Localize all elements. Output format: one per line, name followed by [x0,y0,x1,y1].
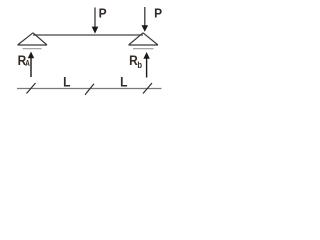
load arrow P1 [92,8,99,34]
svg-text:L: L [120,74,127,90]
dimension line [17,88,162,90]
support A ground line [23,48,42,50]
support B ground line [133,48,154,50]
svg-text:A: A [25,58,30,68]
svg-text:P: P [154,6,162,21]
support A triangle [18,33,48,45]
reaction arrow Rb [143,52,149,78]
svg-text:b: b [137,59,142,70]
dimension tick slash left [27,83,36,94]
beam [33,34,143,36]
reaction arrow RA [28,52,34,78]
dimension tick slash right [143,83,152,94]
load arrow P2 [142,7,149,32]
dimension tick slash middle [85,84,94,95]
svg-text:P: P [99,6,107,21]
svg-text:L: L [63,74,70,90]
support B triangle [129,33,159,45]
